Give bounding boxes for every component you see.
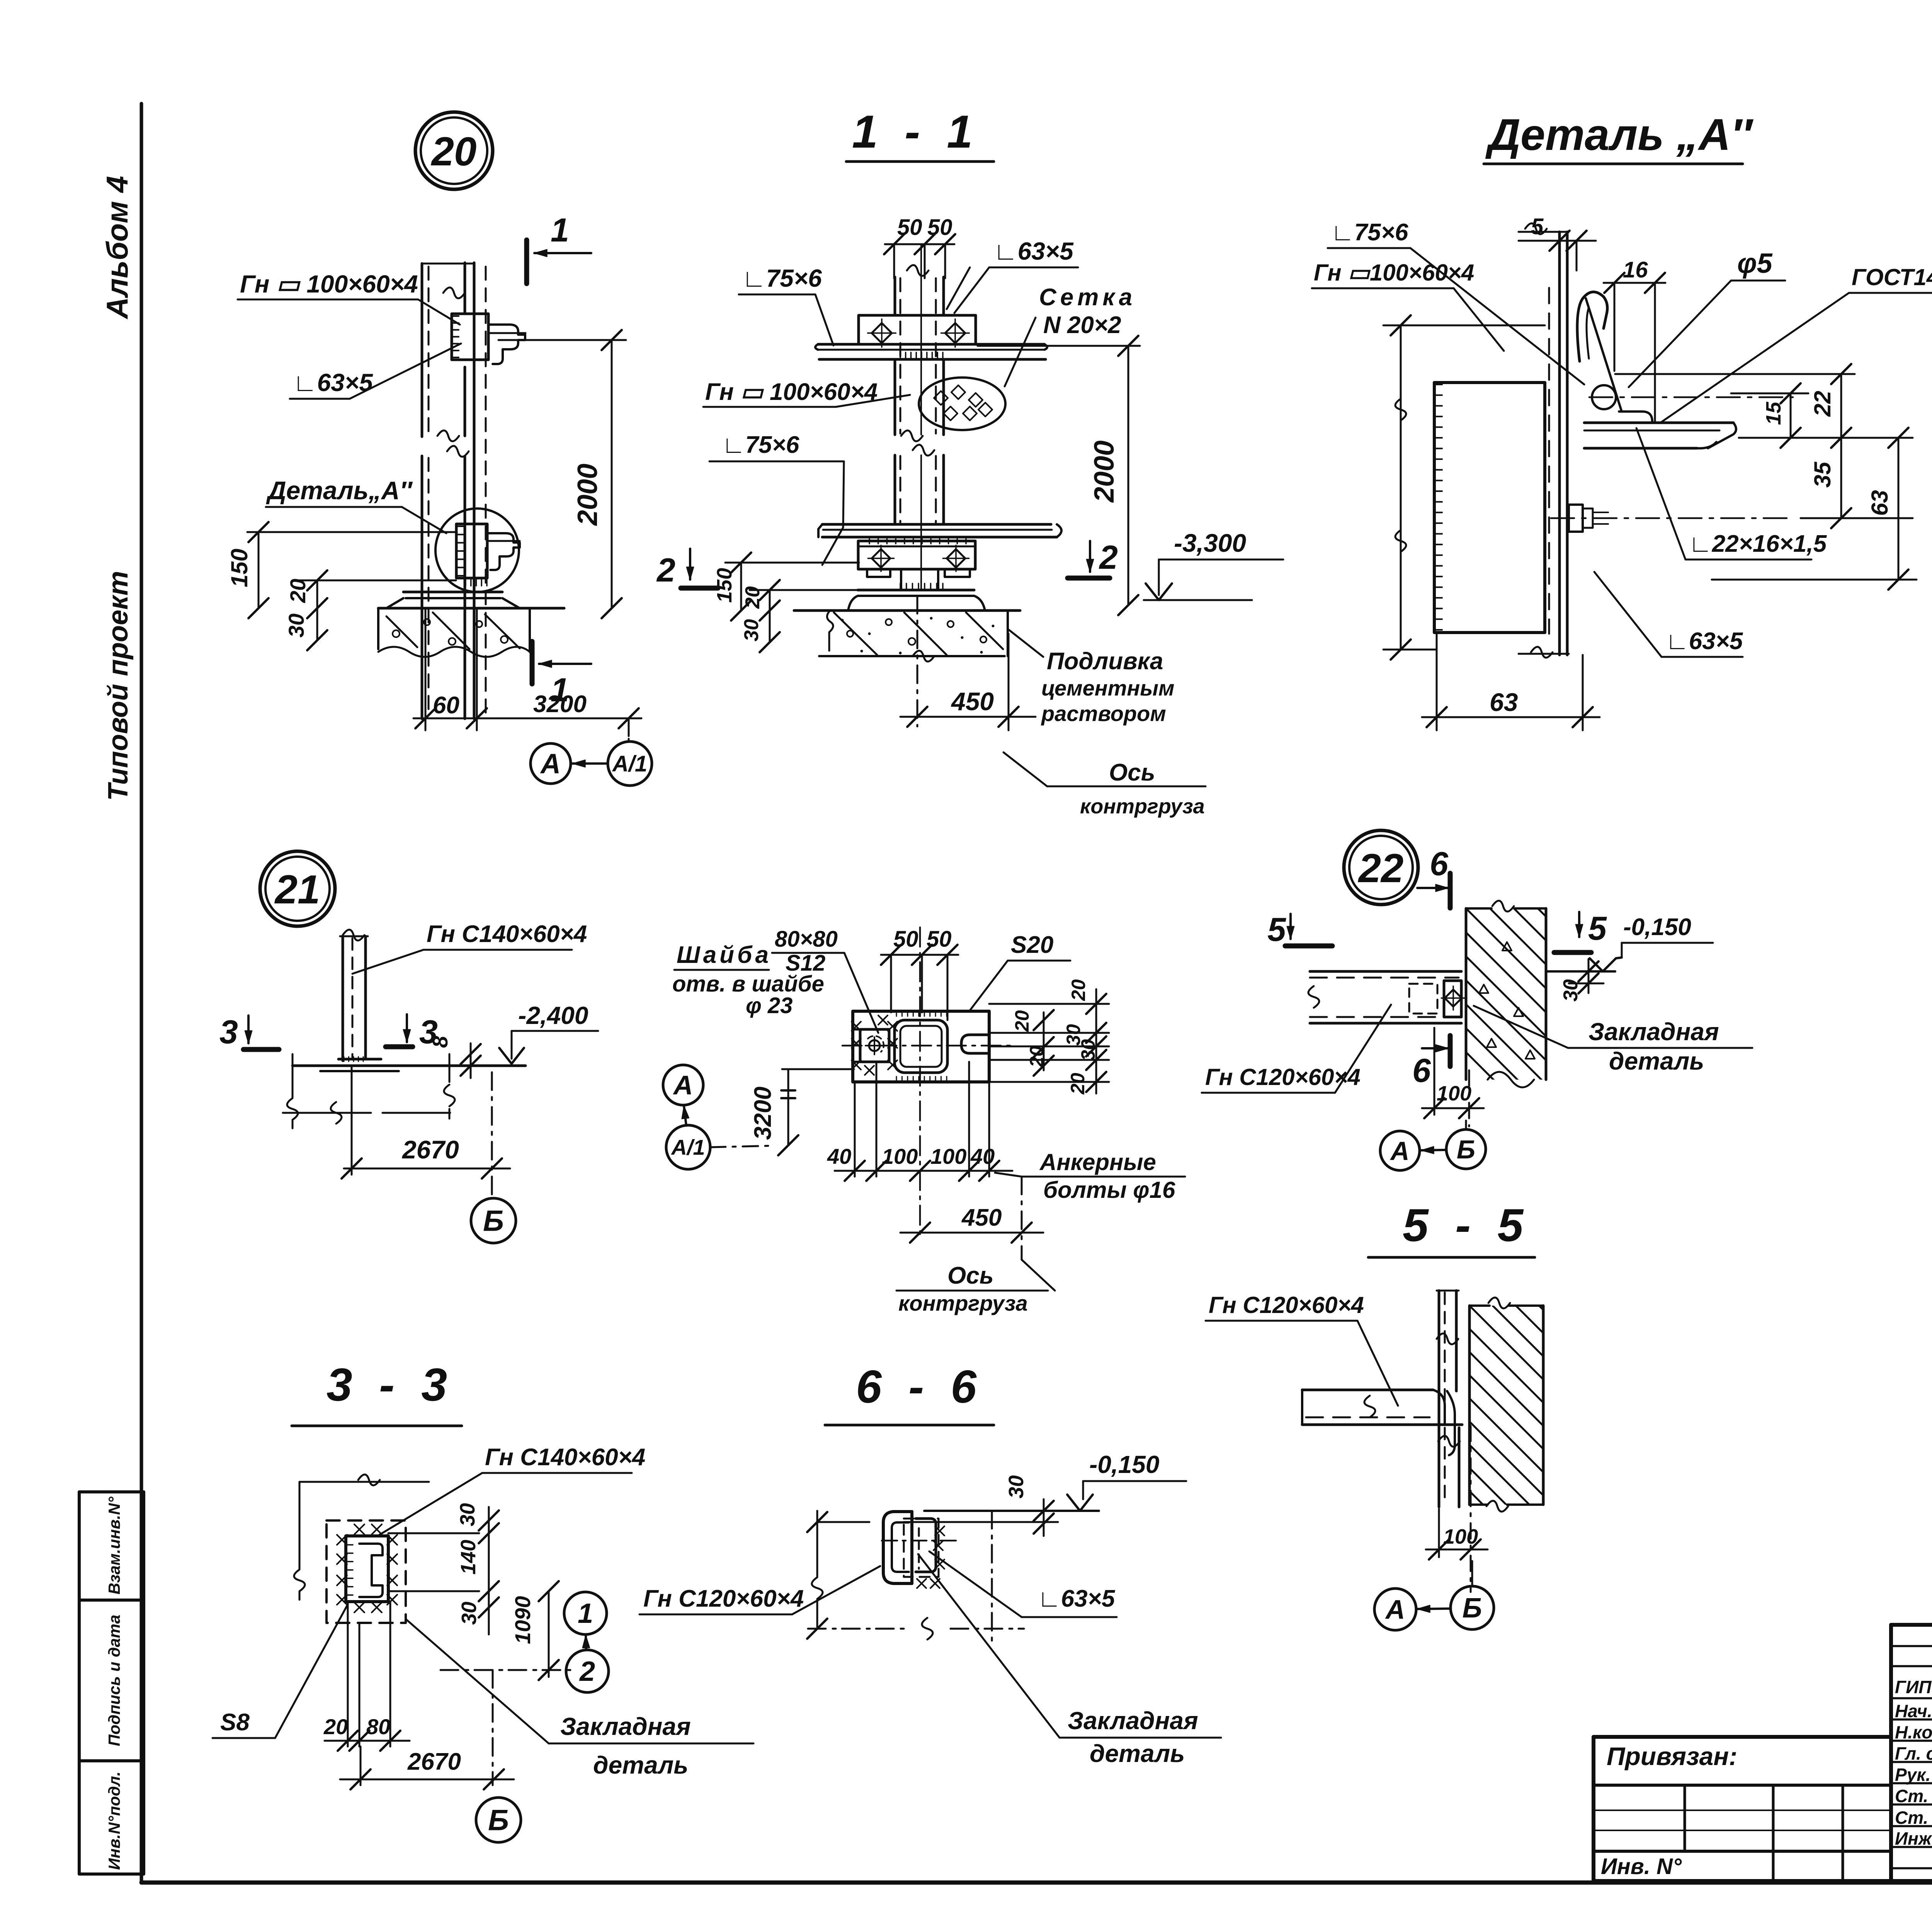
dimension 20 80 (3-3) bbox=[323, 1602, 410, 1751]
dimension 15 (detail A) bbox=[1615, 374, 1855, 448]
label Гн 100x60x4 (detail A) bbox=[1312, 260, 1504, 351]
svg-text:3200: 3200 bbox=[533, 691, 587, 718]
washer square with hole bbox=[852, 1015, 897, 1075]
svg-text:20: 20 bbox=[1067, 1073, 1088, 1095]
section title 6-6 bbox=[825, 1361, 994, 1425]
svg-text:30: 30 bbox=[740, 619, 763, 641]
svg-text:5: 5 bbox=[1531, 214, 1544, 239]
wall with hatch (node 22) bbox=[1322, 901, 1835, 1087]
label Гн С120x60x4 (5-5) bbox=[1206, 1292, 1398, 1406]
svg-text:30: 30 bbox=[1005, 1475, 1028, 1498]
svg-text:А: А bbox=[673, 1070, 693, 1100]
small grid under Привязан bbox=[1594, 1785, 1891, 1881]
svg-text:20: 20 bbox=[286, 579, 310, 603]
column (node 21) bbox=[340, 930, 368, 1061]
svg-text:5: 5 bbox=[1267, 911, 1286, 948]
svg-text:Ось: Ось bbox=[947, 1262, 994, 1289]
svg-text:1: 1 bbox=[578, 1598, 593, 1629]
section mark 5 left (node 22) bbox=[1267, 911, 1332, 948]
svg-text:100: 100 bbox=[882, 1144, 918, 1168]
svg-text:цементным: цементным bbox=[1041, 676, 1174, 700]
label ШАЙБА 80x80 S12 bbox=[672, 927, 878, 1033]
bottom dimension 60 3200 (node 20) bbox=[413, 608, 641, 739]
svg-text:16: 16 bbox=[1623, 257, 1648, 282]
svg-text:А/1: А/1 bbox=[612, 751, 647, 776]
elevation mark -3,300 bbox=[1144, 529, 1283, 600]
svg-text:30: 30 bbox=[456, 1503, 479, 1526]
svg-text:Гн ▭ 100×60×4: Гн ▭ 100×60×4 bbox=[240, 270, 418, 298]
svg-text:Взам.инв.N°: Взам.инв.N° bbox=[105, 1496, 123, 1594]
svg-text:∟63×5: ∟63×5 bbox=[1665, 628, 1743, 655]
svg-text:Гн ▭ 100×60×4: Гн ▭ 100×60×4 bbox=[705, 379, 878, 405]
label ГОСТ14776-69-Н1-6/100 bbox=[1662, 264, 1932, 422]
svg-text:30: 30 bbox=[1077, 1039, 1099, 1061]
svg-text:контргруза: контргруза bbox=[898, 1291, 1028, 1315]
node circle 21 bbox=[260, 851, 335, 926]
dimension 8 (node 21) bbox=[428, 1036, 481, 1078]
dimension 450 (washer) bbox=[900, 1177, 1043, 1260]
svg-text:Привязан:: Привязан: bbox=[1607, 1742, 1737, 1770]
svg-text:6 - 6: 6 - 6 bbox=[856, 1361, 983, 1413]
label Закладная деталь (3-3) bbox=[406, 1619, 753, 1779]
dimension 30 (node 22) bbox=[1560, 959, 1604, 1002]
svg-text:Инв.N°подл.: Инв.N°подл. bbox=[105, 1772, 123, 1870]
svg-text:-0,150: -0,150 bbox=[1089, 1451, 1159, 1478]
left dimensions 150 20 30 (1-1) bbox=[713, 553, 859, 652]
label Ось контргруза (1-1) bbox=[1003, 752, 1206, 818]
embedded plate (3-3) bbox=[337, 1524, 397, 1612]
section mark 2 right (1-1) bbox=[1068, 539, 1118, 578]
svg-text:Шайба: Шайба bbox=[677, 942, 772, 968]
svg-text:100: 100 bbox=[1443, 1525, 1478, 1548]
svg-text:80: 80 bbox=[366, 1714, 390, 1739]
svg-text:6: 6 bbox=[1430, 845, 1449, 883]
angle leg plate (detail A) bbox=[1434, 383, 1545, 633]
label 63x5 (node 20) bbox=[290, 344, 461, 399]
svg-text:∟75×6: ∟75×6 bbox=[1331, 219, 1408, 246]
svg-text:1 - 1: 1 - 1 bbox=[852, 106, 980, 158]
upper extension lines (3-3) bbox=[294, 1475, 429, 1600]
svg-text:20: 20 bbox=[1011, 1010, 1033, 1032]
label S8 (3-3) bbox=[213, 1604, 348, 1738]
svg-text:Рук. гр.: Рук. гр. bbox=[1895, 1765, 1932, 1785]
left extension with break (node 21) bbox=[287, 1054, 298, 1128]
label Закладная деталь (node 22) bbox=[1474, 1006, 1752, 1075]
column (1-1) bbox=[895, 244, 944, 590]
svg-text:∟75×6: ∟75×6 bbox=[742, 264, 822, 292]
dimension 50 50 (1-1) bbox=[884, 215, 955, 278]
svg-text:5 - 5: 5 - 5 bbox=[1403, 1199, 1530, 1251]
svg-text:Инв. N°: Инв. N° bbox=[1601, 1854, 1682, 1879]
right extension (node 21) bbox=[444, 1054, 455, 1119]
svg-text:раствором: раствором bbox=[1041, 701, 1166, 726]
mesh symbol СЕТКА (1-1) bbox=[919, 378, 1005, 430]
dimension 450 (1-1) bbox=[900, 596, 1036, 730]
section mark 2 left (1-1) bbox=[656, 549, 718, 589]
svg-text:140: 140 bbox=[457, 1540, 480, 1575]
section mark 6 bottom (node 22) bbox=[1412, 1036, 1450, 1089]
column (node 20) bbox=[422, 263, 486, 719]
svg-text:30: 30 bbox=[284, 614, 308, 638]
label Гн С120x60x4 (between 3-3 and 6-6) bbox=[639, 1566, 880, 1614]
section title 1-1 bbox=[846, 106, 994, 162]
svg-text:2: 2 bbox=[656, 552, 675, 589]
svg-text:22: 22 bbox=[1358, 846, 1404, 891]
svg-text:20: 20 bbox=[1026, 1046, 1048, 1068]
clip bracket top (node 20) bbox=[452, 314, 526, 364]
signature table grid bbox=[1891, 1625, 1932, 1881]
dimension 50 50 (washer) bbox=[881, 927, 958, 1020]
label Ф5 (detail A) bbox=[1629, 248, 1785, 387]
axis circles А А/1 (washer) bbox=[663, 1065, 775, 1169]
axis circles А and А/1 (node 20) bbox=[531, 739, 652, 786]
svg-text:Гн С140×60×4: Гн С140×60×4 bbox=[427, 921, 587, 947]
svg-text:Закладная: Закладная bbox=[560, 1713, 691, 1740]
label 75x6 (detail A) bbox=[1328, 219, 1584, 384]
svg-text:3: 3 bbox=[219, 1014, 238, 1051]
svg-text:Ст. инж: Ст. инж bbox=[1895, 1808, 1932, 1828]
svg-text:15: 15 bbox=[1762, 401, 1785, 425]
svg-text:Ст. инж: Ст. инж bbox=[1895, 1786, 1932, 1806]
svg-text:Закладная: Закладная bbox=[1588, 1018, 1719, 1046]
svg-text:Гн С120×60×4: Гн С120×60×4 bbox=[643, 1585, 804, 1612]
tube cross-section (washer detail) bbox=[895, 1012, 947, 1081]
svg-text:20: 20 bbox=[1068, 979, 1089, 1001]
elevation -0,150 (6-6) bbox=[1067, 1451, 1186, 1511]
label 75x6 top (1-1) bbox=[739, 264, 833, 345]
svg-text:ГИП: ГИП bbox=[1895, 1677, 1932, 1697]
svg-text:3200: 3200 bbox=[750, 1087, 776, 1140]
svg-text:40: 40 bbox=[827, 1144, 851, 1168]
svg-text:Гн С120×60×4: Гн С120×60×4 bbox=[1209, 1292, 1364, 1318]
dimension 5 (detail A) bbox=[1519, 214, 1596, 270]
label Деталь А bbox=[266, 476, 446, 533]
dimension 100 (node 22) bbox=[1422, 1028, 1484, 1126]
svg-text:N 20×2: N 20×2 bbox=[1043, 312, 1121, 338]
svg-text:А: А bbox=[540, 748, 561, 779]
beam from left (node 22) bbox=[1308, 971, 1465, 1023]
svg-text:5: 5 bbox=[1588, 910, 1607, 947]
svg-text:2000: 2000 bbox=[572, 464, 603, 526]
svg-text:Б: Б bbox=[483, 1205, 504, 1238]
sheet frame left border bbox=[140, 104, 143, 1883]
svg-text:Инженер: Инженер bbox=[1895, 1828, 1932, 1849]
dimension 16 (detail A) bbox=[1604, 257, 1665, 421]
label Гн С140x60x4 (3-3) bbox=[379, 1444, 645, 1535]
label Закладная деталь (6-6) bbox=[918, 1554, 1221, 1767]
axis circles 1 2 (3-3) bbox=[564, 1592, 609, 1692]
svg-text:деталь: деталь bbox=[1609, 1047, 1704, 1075]
svg-text:Подпись и дата: Подпись и дата bbox=[105, 1615, 123, 1746]
label Гн 100x60x4 (node 20) bbox=[238, 270, 460, 325]
svg-text:35: 35 bbox=[1810, 461, 1835, 488]
svg-text:3 - 3: 3 - 3 bbox=[327, 1359, 454, 1411]
Привязан box bbox=[1594, 1742, 1891, 1785]
svg-text:Ось: Ось bbox=[1109, 759, 1155, 786]
svg-text:2000: 2000 bbox=[1089, 440, 1120, 503]
dimension 35 (detail A) bbox=[1739, 438, 1913, 528]
axis line (6-6) bbox=[808, 1511, 1024, 1642]
svg-text:2670: 2670 bbox=[407, 1748, 461, 1775]
dimension 40 100 100 40 (washer) bbox=[827, 1062, 1012, 1181]
section mark 6 top (node 22) bbox=[1417, 845, 1450, 908]
elevation mark -2,400 bbox=[499, 1002, 598, 1064]
margin stamp boxes bbox=[79, 1492, 144, 1874]
right dimensions 20 30 30 20 (washer) bbox=[989, 979, 1109, 1095]
svg-text:1: 1 bbox=[551, 212, 569, 249]
label СЕТКА N20x2 bbox=[1005, 284, 1136, 386]
dimensions 30 140 30 (3-3) bbox=[388, 1503, 499, 1634]
axis circle Б (node 21) bbox=[471, 1072, 516, 1243]
svg-text:Закладная: Закладная bbox=[1068, 1707, 1198, 1735]
label 75x6 bottom (1-1) bbox=[709, 432, 844, 565]
svg-text:А: А bbox=[1385, 1595, 1405, 1625]
dimension 100 (5-5) bbox=[1426, 1426, 1488, 1592]
dimension 3200 (washer) bbox=[750, 1069, 854, 1155]
label 63x5 (6-6) bbox=[929, 1551, 1117, 1617]
svg-text:6: 6 bbox=[1412, 1052, 1431, 1089]
title block outer frame bbox=[1594, 1625, 1932, 1881]
svg-text:2: 2 bbox=[1099, 539, 1118, 576]
svg-text:22: 22 bbox=[1810, 391, 1835, 417]
lower bolt (detail A) bbox=[1551, 505, 1793, 532]
lower flange and bracket (1-1) bbox=[818, 524, 1061, 577]
beam (5-5) bbox=[1302, 1390, 1462, 1455]
axis circles А Б (5-5) bbox=[1374, 1561, 1494, 1630]
svg-text:Гн С140×60×4: Гн С140×60×4 bbox=[485, 1444, 645, 1471]
svg-text:∟75×6: ∟75×6 bbox=[722, 432, 799, 458]
svg-text:Типовой проект: Типовой проект bbox=[103, 571, 134, 801]
section mark 3 left (node 21) bbox=[219, 1014, 279, 1051]
svg-text:63: 63 bbox=[1867, 490, 1893, 516]
svg-text:150: 150 bbox=[226, 549, 252, 587]
wall with hatch (5-5) bbox=[1284, 1298, 1879, 1512]
label 22x16x1,5 (detail A) bbox=[1636, 428, 1827, 560]
svg-text:Б: Б bbox=[1463, 1593, 1482, 1624]
svg-text:болты φ16: болты φ16 bbox=[1043, 1177, 1175, 1203]
ground line (node 20) bbox=[378, 607, 564, 610]
left dimension line (detail A) bbox=[1383, 315, 1545, 660]
dimension 30 (6-6) bbox=[1005, 1475, 1054, 1536]
svg-text:8: 8 bbox=[428, 1036, 452, 1048]
floor lines (6-6) bbox=[904, 1511, 1099, 1522]
svg-text:20: 20 bbox=[431, 129, 477, 174]
svg-text:-3,300: -3,300 bbox=[1174, 529, 1246, 557]
svg-text:Гн С120×60×4: Гн С120×60×4 bbox=[1205, 1064, 1361, 1090]
svg-text:А: А bbox=[1389, 1136, 1409, 1166]
centerlines (washer detail) bbox=[842, 927, 1012, 1238]
dimension 63 right (detail A) bbox=[1712, 428, 1917, 590]
dimension 2000 (node 20) bbox=[498, 330, 626, 618]
svg-text:80×80: 80×80 bbox=[775, 927, 838, 952]
ground line (1-1) bbox=[794, 609, 1020, 612]
section mark 3 right (node 21) bbox=[386, 1014, 438, 1051]
label Гн С140x60x4 (node 21) bbox=[352, 921, 587, 974]
detail title ДЕТАЛЬ А bbox=[1484, 110, 1754, 164]
axis circle Б (3-3) bbox=[476, 1798, 521, 1842]
svg-text:-0,150: -0,150 bbox=[1623, 914, 1691, 940]
svg-text:2670: 2670 bbox=[401, 1135, 459, 1164]
dimension 2670 (node 21) bbox=[342, 1066, 510, 1179]
svg-text:21: 21 bbox=[274, 867, 320, 912]
embedded plate dashed box (3-3) bbox=[327, 1520, 406, 1623]
svg-text:А/1: А/1 bbox=[670, 1135, 705, 1160]
sheet frame bottom border bbox=[141, 1881, 1932, 1885]
svg-text:Анкерные: Анкерные bbox=[1039, 1149, 1156, 1175]
svg-text:φ 23: φ 23 bbox=[746, 993, 793, 1018]
wall plate verticals (detail A) bbox=[1519, 223, 1569, 658]
svg-text:30: 30 bbox=[457, 1602, 481, 1625]
axis lines (3-3) bbox=[440, 1670, 572, 1785]
signature table texts bbox=[1895, 1677, 1932, 1849]
label Ось контргруза (washer) bbox=[896, 1260, 1055, 1315]
dimension 1090 (3-3) bbox=[510, 1581, 559, 1680]
svg-text:20: 20 bbox=[323, 1714, 348, 1739]
vertical member (5-5) bbox=[1437, 1291, 1460, 1507]
svg-text:Альбом 4: Альбом 4 bbox=[100, 176, 134, 320]
label 63x5 (detail A) bbox=[1594, 572, 1743, 657]
svg-text:S8: S8 bbox=[220, 1709, 250, 1736]
svg-text:450: 450 bbox=[961, 1204, 1002, 1231]
section mark 1 bottom bbox=[532, 641, 591, 709]
foundation hatch (1-1) bbox=[819, 611, 1008, 662]
svg-text:Сетка: Сетка bbox=[1039, 284, 1136, 311]
svg-text:Б: Б bbox=[1457, 1135, 1475, 1164]
svg-text:Гн ▭100×60×4: Гн ▭100×60×4 bbox=[1314, 260, 1474, 286]
centerline cross (6-6) bbox=[882, 1522, 958, 1561]
svg-text:Деталь „А″: Деталь „А″ bbox=[1485, 110, 1754, 160]
svg-text:100: 100 bbox=[930, 1144, 966, 1168]
svg-text:∟22×16×1,5: ∟22×16×1,5 bbox=[1689, 531, 1827, 557]
axis circles А Б (node 22) bbox=[1380, 1121, 1486, 1170]
base plate (1-1) bbox=[848, 583, 985, 611]
embedded channel (6-6) bbox=[883, 1512, 944, 1588]
lower slab line with breaks (node 21) bbox=[283, 1102, 450, 1124]
svg-text:φ5: φ5 bbox=[1737, 248, 1773, 279]
svg-text:∟63×5: ∟63×5 bbox=[993, 237, 1074, 265]
svg-text:63: 63 bbox=[1490, 688, 1518, 716]
svg-text:ГОСТ14776-69-Н1-6/100: ГОСТ14776-69-Н1-6/100 bbox=[1852, 264, 1932, 290]
detail A dashed circle bbox=[435, 509, 519, 592]
base and floor lines (node 21) bbox=[293, 1057, 526, 1071]
label S20 (washer) bbox=[970, 932, 1070, 1010]
svg-text:∟63×5: ∟63×5 bbox=[1037, 1585, 1116, 1612]
svg-text:1090: 1090 bbox=[510, 1596, 535, 1644]
dimension 22 (detail A) bbox=[1810, 364, 1851, 448]
svg-text:-2,400: -2,400 bbox=[518, 1002, 588, 1029]
bent clip and bolt (detail A) bbox=[1577, 292, 1793, 448]
svg-text:60: 60 bbox=[433, 692, 459, 719]
section mark 5 and elevation -0,150 (node 22) bbox=[1546, 910, 1713, 971]
svg-text:контргруза: контргруза bbox=[1080, 795, 1205, 818]
top bracket and flange (1-1) bbox=[815, 315, 1047, 359]
svg-text:150: 150 bbox=[713, 568, 736, 603]
svg-text:деталь: деталь bbox=[1090, 1740, 1185, 1767]
label Анкерные болты Ф16 bbox=[995, 1149, 1185, 1203]
left dimensions 150 20 30 (node 20) bbox=[226, 522, 456, 650]
svg-text:S20: S20 bbox=[1011, 932, 1053, 958]
dimension 2000 (1-1) bbox=[978, 336, 1140, 615]
clip bracket in detail A bbox=[456, 524, 520, 578]
svg-text:Нач. отд.: Нач. отд. bbox=[1895, 1701, 1932, 1721]
bottom dimension 63 (detail A) bbox=[1422, 633, 1600, 730]
node circle 20 bbox=[415, 112, 493, 189]
svg-text:Н.контр.: Н.контр. bbox=[1895, 1722, 1932, 1742]
section mark 1 top bbox=[527, 212, 591, 284]
base plate (node 20) bbox=[386, 580, 520, 608]
section title 3-3 bbox=[292, 1359, 462, 1426]
svg-text:Гл. спец: Гл. спец bbox=[1895, 1743, 1932, 1764]
dimension 2670 (3-3) bbox=[340, 1747, 514, 1789]
dashed box (6-6) bbox=[904, 1519, 939, 1577]
svg-text:деталь: деталь bbox=[593, 1751, 688, 1779]
svg-text:Подливка: Подливка bbox=[1047, 648, 1163, 675]
svg-text:450: 450 bbox=[951, 687, 994, 716]
node circle 22 bbox=[1344, 830, 1418, 905]
foundation hatch (node 20) bbox=[378, 608, 530, 657]
svg-text:40: 40 bbox=[970, 1144, 995, 1168]
left dimension line (6-6) bbox=[807, 1511, 869, 1639]
svg-text:Б: Б bbox=[488, 1804, 509, 1837]
anchor plate (washer detail) bbox=[853, 1011, 989, 1082]
svg-text:2: 2 bbox=[579, 1656, 595, 1687]
label Гн С120x60x4 (node 22) bbox=[1202, 1005, 1391, 1093]
svg-text:Деталь„А″: Деталь„А″ bbox=[266, 476, 413, 505]
section title 5-5 bbox=[1368, 1199, 1535, 1257]
label Подливка цементным раствором bbox=[1009, 630, 1174, 726]
label 63x5 (1-1) bbox=[947, 237, 1078, 313]
label Гн 100x60x4 (1-1) bbox=[703, 379, 910, 407]
